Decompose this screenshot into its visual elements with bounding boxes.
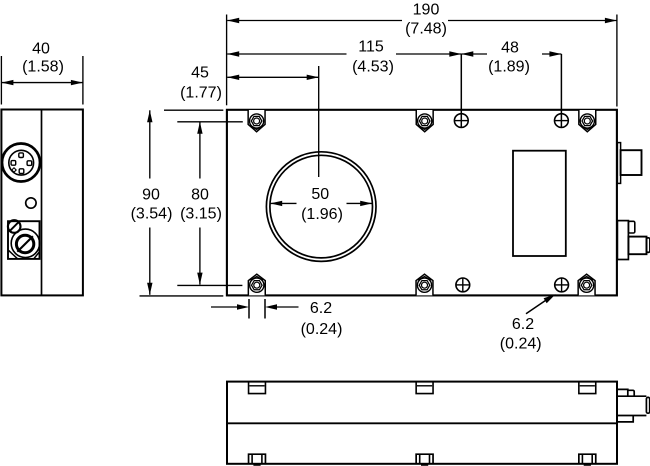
dim line 90 vertical [149, 110, 151, 294]
svg-text:48: 48 [501, 40, 519, 57]
mounting nut bottom-right [578, 274, 595, 295]
svg-text:40: 40 [32, 41, 50, 58]
screw top hole left [454, 114, 468, 128]
label rectangle [513, 151, 566, 256]
extension line 90 top [164, 109, 223, 111]
bottom view outline [227, 382, 617, 464]
dim 190 arrowheads [227, 18, 239, 23]
dim 50 arrowheads [270, 201, 282, 206]
screw top hole right [555, 114, 569, 128]
dim 80 arrowheads [197, 122, 202, 134]
svg-text:(4.53): (4.53) [352, 59, 394, 76]
screw bottom hole left [456, 278, 470, 292]
extension line hole left (x=461.3) [460, 54, 462, 128]
svg-text:(0.24): (0.24) [301, 321, 343, 338]
svg-text:(3.15): (3.15) [180, 206, 222, 223]
mounting nut top-middle [416, 110, 433, 132]
connector upper right [617, 143, 641, 184]
dim 45 arrowheads [227, 75, 239, 80]
svg-text:45: 45 [191, 65, 209, 82]
mounting nut bottom-middle [416, 274, 433, 295]
svg-text:6.2: 6.2 [512, 316, 534, 333]
leader line 6.2 right [526, 298, 550, 314]
dim line 190 [227, 20, 617, 22]
dim 6.2 tick left [248, 299, 250, 319]
svg-text:6.2: 6.2 [310, 300, 332, 317]
M12 connector [2, 144, 40, 182]
bottom-view top tab left [249, 382, 266, 394]
mounting nut top-left [248, 110, 265, 132]
dim 6.2 tick right [264, 299, 266, 319]
dim 40 arrowheads [1, 80, 13, 85]
dim line 80 vertical [199, 122, 201, 285]
dim line 48 [461, 53, 561, 55]
dim line 50 [270, 202, 372, 204]
dim 90 arrowheads [147, 110, 152, 122]
dim 48 arrowheads [461, 51, 473, 56]
extension line circle center (x=318.7) [318, 66, 320, 177]
mounting nut top-right [579, 110, 596, 132]
mounting nut bottom-left [248, 274, 265, 295]
extension line left (x=226.6) [226, 15, 228, 106]
extension line 80 top [177, 121, 243, 123]
dim 6.2 tails [211, 306, 299, 308]
bottom-view bottom tab middle [416, 454, 433, 466]
svg-text:(7.48): (7.48) [405, 21, 447, 38]
extension line 90 bottom [140, 295, 224, 297]
dim line 45 [227, 76, 319, 78]
lens circle 50mm [266, 152, 376, 262]
LED indicator [26, 198, 36, 208]
svg-text:(1.89): (1.89) [488, 59, 530, 76]
bottom-view bottom tab left [249, 454, 266, 466]
side view divider line [41, 110, 43, 296]
bottom view mid line [227, 422, 617, 424]
extension line hole right (x=561.4) [560, 54, 562, 128]
svg-text:(1.58): (1.58) [22, 59, 64, 76]
extension line 80 bottom [177, 284, 242, 286]
bottom-view top tab middle [416, 382, 433, 394]
leader arrowhead 6.2 [544, 294, 556, 303]
bottom-view bottom tab right [579, 454, 596, 466]
svg-text:115: 115 [358, 39, 384, 56]
svg-text:(3.54): (3.54) [131, 206, 173, 223]
bottom view connector right [617, 389, 650, 422]
extension line 40 left [0, 56, 2, 105]
dim line 115 [227, 53, 461, 55]
main view outline [227, 110, 617, 296]
dim 115 arrowheads [227, 51, 239, 56]
svg-text:190: 190 [413, 2, 440, 19]
svg-text:80: 80 [191, 187, 209, 204]
bottom-view top tab right [579, 382, 596, 394]
dim line 40 [1, 82, 83, 84]
extension line right (x=616.9) [616, 15, 618, 107]
screw bottom hole right [555, 278, 569, 292]
connector lower right [617, 221, 650, 260]
extension line 40 right [82, 56, 84, 105]
svg-text:(0.24): (0.24) [500, 335, 542, 352]
side view outline [1, 110, 83, 296]
svg-text:(1.77): (1.77) [180, 85, 222, 102]
svg-text:(1.96): (1.96) [301, 206, 343, 223]
svg-text:90: 90 [142, 187, 160, 204]
dim 6.2 arrowheads [237, 304, 249, 309]
potentiometer [8, 220, 40, 259]
svg-text:50: 50 [311, 186, 329, 203]
